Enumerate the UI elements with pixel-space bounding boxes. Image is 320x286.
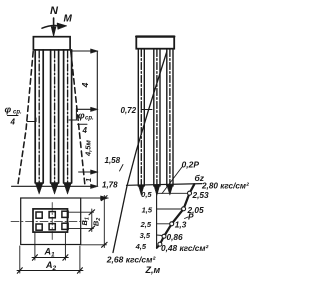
phi/4 left hook leader — [27, 118, 36, 122]
svg-text:0,48 кгс/см²: 0,48 кгс/см² — [161, 243, 209, 253]
A2 dimension line — [17, 270, 83, 272]
P leader — [185, 217, 189, 219]
svg-text:2,68 кгс/см²: 2,68 кгс/см² — [106, 255, 157, 265]
svg-text:4,5м: 4,5м — [84, 140, 93, 157]
pile P2 tip — [51, 183, 59, 195]
svg-text:1,3: 1,3 — [175, 220, 187, 230]
svg-text:3,5: 3,5 — [140, 231, 151, 240]
depth labels — [135, 190, 153, 251]
right pile B axis — [156, 50, 158, 186]
svg-text:P: P — [188, 212, 194, 222]
plan outer rectangle A2xB2 — [21, 198, 81, 245]
step line 1,5 — [157, 208, 182, 210]
right pile C axis — [169, 50, 171, 186]
pile P2 middle — [51, 50, 59, 183]
pile P1 tip — [35, 183, 43, 195]
plan vertical centerline — [51, 203, 53, 242]
svg-text:φ: φ — [78, 111, 85, 122]
svg-text:A2: A2 — [45, 260, 57, 272]
soil layer leader y=109 — [76, 108, 95, 110]
svg-text:ср.: ср. — [85, 116, 94, 122]
conditional foundation boundary dashed right — [71, 52, 85, 187]
sigma diagram base line — [127, 184, 203, 186]
step line 2,5 — [157, 223, 170, 225]
sigma-z epure curve — [157, 184, 194, 247]
svg-text:1: 1 — [84, 178, 93, 182]
svg-text:1,78: 1,78 — [102, 181, 118, 190]
svg-text:2,80 кгс/см²: 2,80 кгс/см² — [201, 182, 249, 191]
svg-text:0,2P: 0,2P — [182, 160, 200, 170]
svg-text:ср.: ср. — [13, 110, 22, 116]
conditional base line y=186.3 — [12, 185, 96, 187]
pile tip level leader y=172 — [79, 171, 95, 173]
svg-text:0,86: 0,86 — [167, 232, 184, 242]
svg-text:M: M — [64, 14, 73, 25]
0,72 tick — [141, 109, 152, 111]
ground line leader at cap base — [71, 50, 96, 52]
pile P3 right — [64, 50, 72, 183]
B2 dimension line — [103, 196, 105, 248]
svg-text:2,5: 2,5 — [140, 220, 152, 229]
svg-text:4: 4 — [82, 126, 88, 135]
svg-text:0,5: 0,5 — [141, 190, 152, 199]
A1 extension lines — [34, 233, 36, 260]
phi/4 label right — [78, 111, 94, 136]
step line 0,5 — [157, 192, 188, 194]
A2 extension lines — [19, 246, 21, 273]
right pile cap — [136, 36, 174, 48]
conditional foundation boundary dashed left — [18, 52, 34, 187]
B2 extension lines — [81, 197, 107, 199]
phi/4 label left — [5, 105, 23, 127]
phi/4 right hook leader — [69, 108, 76, 120]
base plane line with arrow (top edge of plan) — [21, 197, 103, 199]
svg-text:B1: B1 — [80, 217, 90, 225]
sigma Z axis — [156, 185, 158, 249]
svg-text:1,58: 1,58 — [105, 156, 121, 165]
leader 1,58 — [120, 165, 124, 172]
right pile A tip — [138, 185, 144, 195]
plan inner rectangle (cap) A1xB1 — [33, 209, 68, 232]
pile cap (elevation, left) — [33, 37, 70, 50]
vertical dimension line — [96, 51, 98, 186]
svg-text:N: N — [50, 5, 59, 17]
svg-text:2,53: 2,53 — [192, 190, 210, 200]
A1 dimension line — [32, 257, 68, 259]
pile squares row 1 — [36, 211, 68, 218]
plan horizontal centerline — [11, 221, 87, 223]
right pile B — [154, 49, 160, 186]
pile P1 axis — [38, 51, 40, 184]
pile P3 axis — [67, 51, 69, 184]
pile P1 left — [35, 50, 43, 183]
svg-text:4: 4 — [80, 82, 90, 88]
svg-text:φ: φ — [5, 105, 12, 116]
svg-text:B2: B2 — [92, 218, 102, 226]
svg-text:0,72: 0,72 — [121, 106, 137, 115]
step line 3,5 — [157, 234, 163, 237]
B1 extension lines — [68, 211, 94, 213]
svg-text:A1: A1 — [44, 247, 56, 259]
right pile C tip — [167, 185, 173, 195]
epure point circles — [158, 191, 192, 246]
right pile A axis — [140, 50, 142, 186]
right pile C — [167, 49, 173, 186]
svg-text:4,5: 4,5 — [135, 242, 147, 251]
right pile B tip — [154, 185, 160, 196]
moment M curved arrow — [42, 26, 57, 29]
natural pressure diagonal — [113, 51, 167, 253]
force N arrow — [51, 18, 56, 37]
svg-text:1,5: 1,5 — [142, 206, 153, 215]
pile squares row 2 — [36, 223, 68, 230]
pile P2 axis — [54, 51, 56, 184]
sigma value labels — [161, 190, 209, 253]
0,2P leader — [162, 167, 182, 194]
svg-text:4: 4 — [10, 118, 16, 127]
svg-text:бz: бz — [195, 173, 205, 183]
B1 dimension line — [91, 209, 93, 232]
right pile A — [138, 49, 144, 186]
svg-text:Z,м: Z,м — [145, 265, 161, 275]
pile P3 tip — [64, 183, 72, 195]
